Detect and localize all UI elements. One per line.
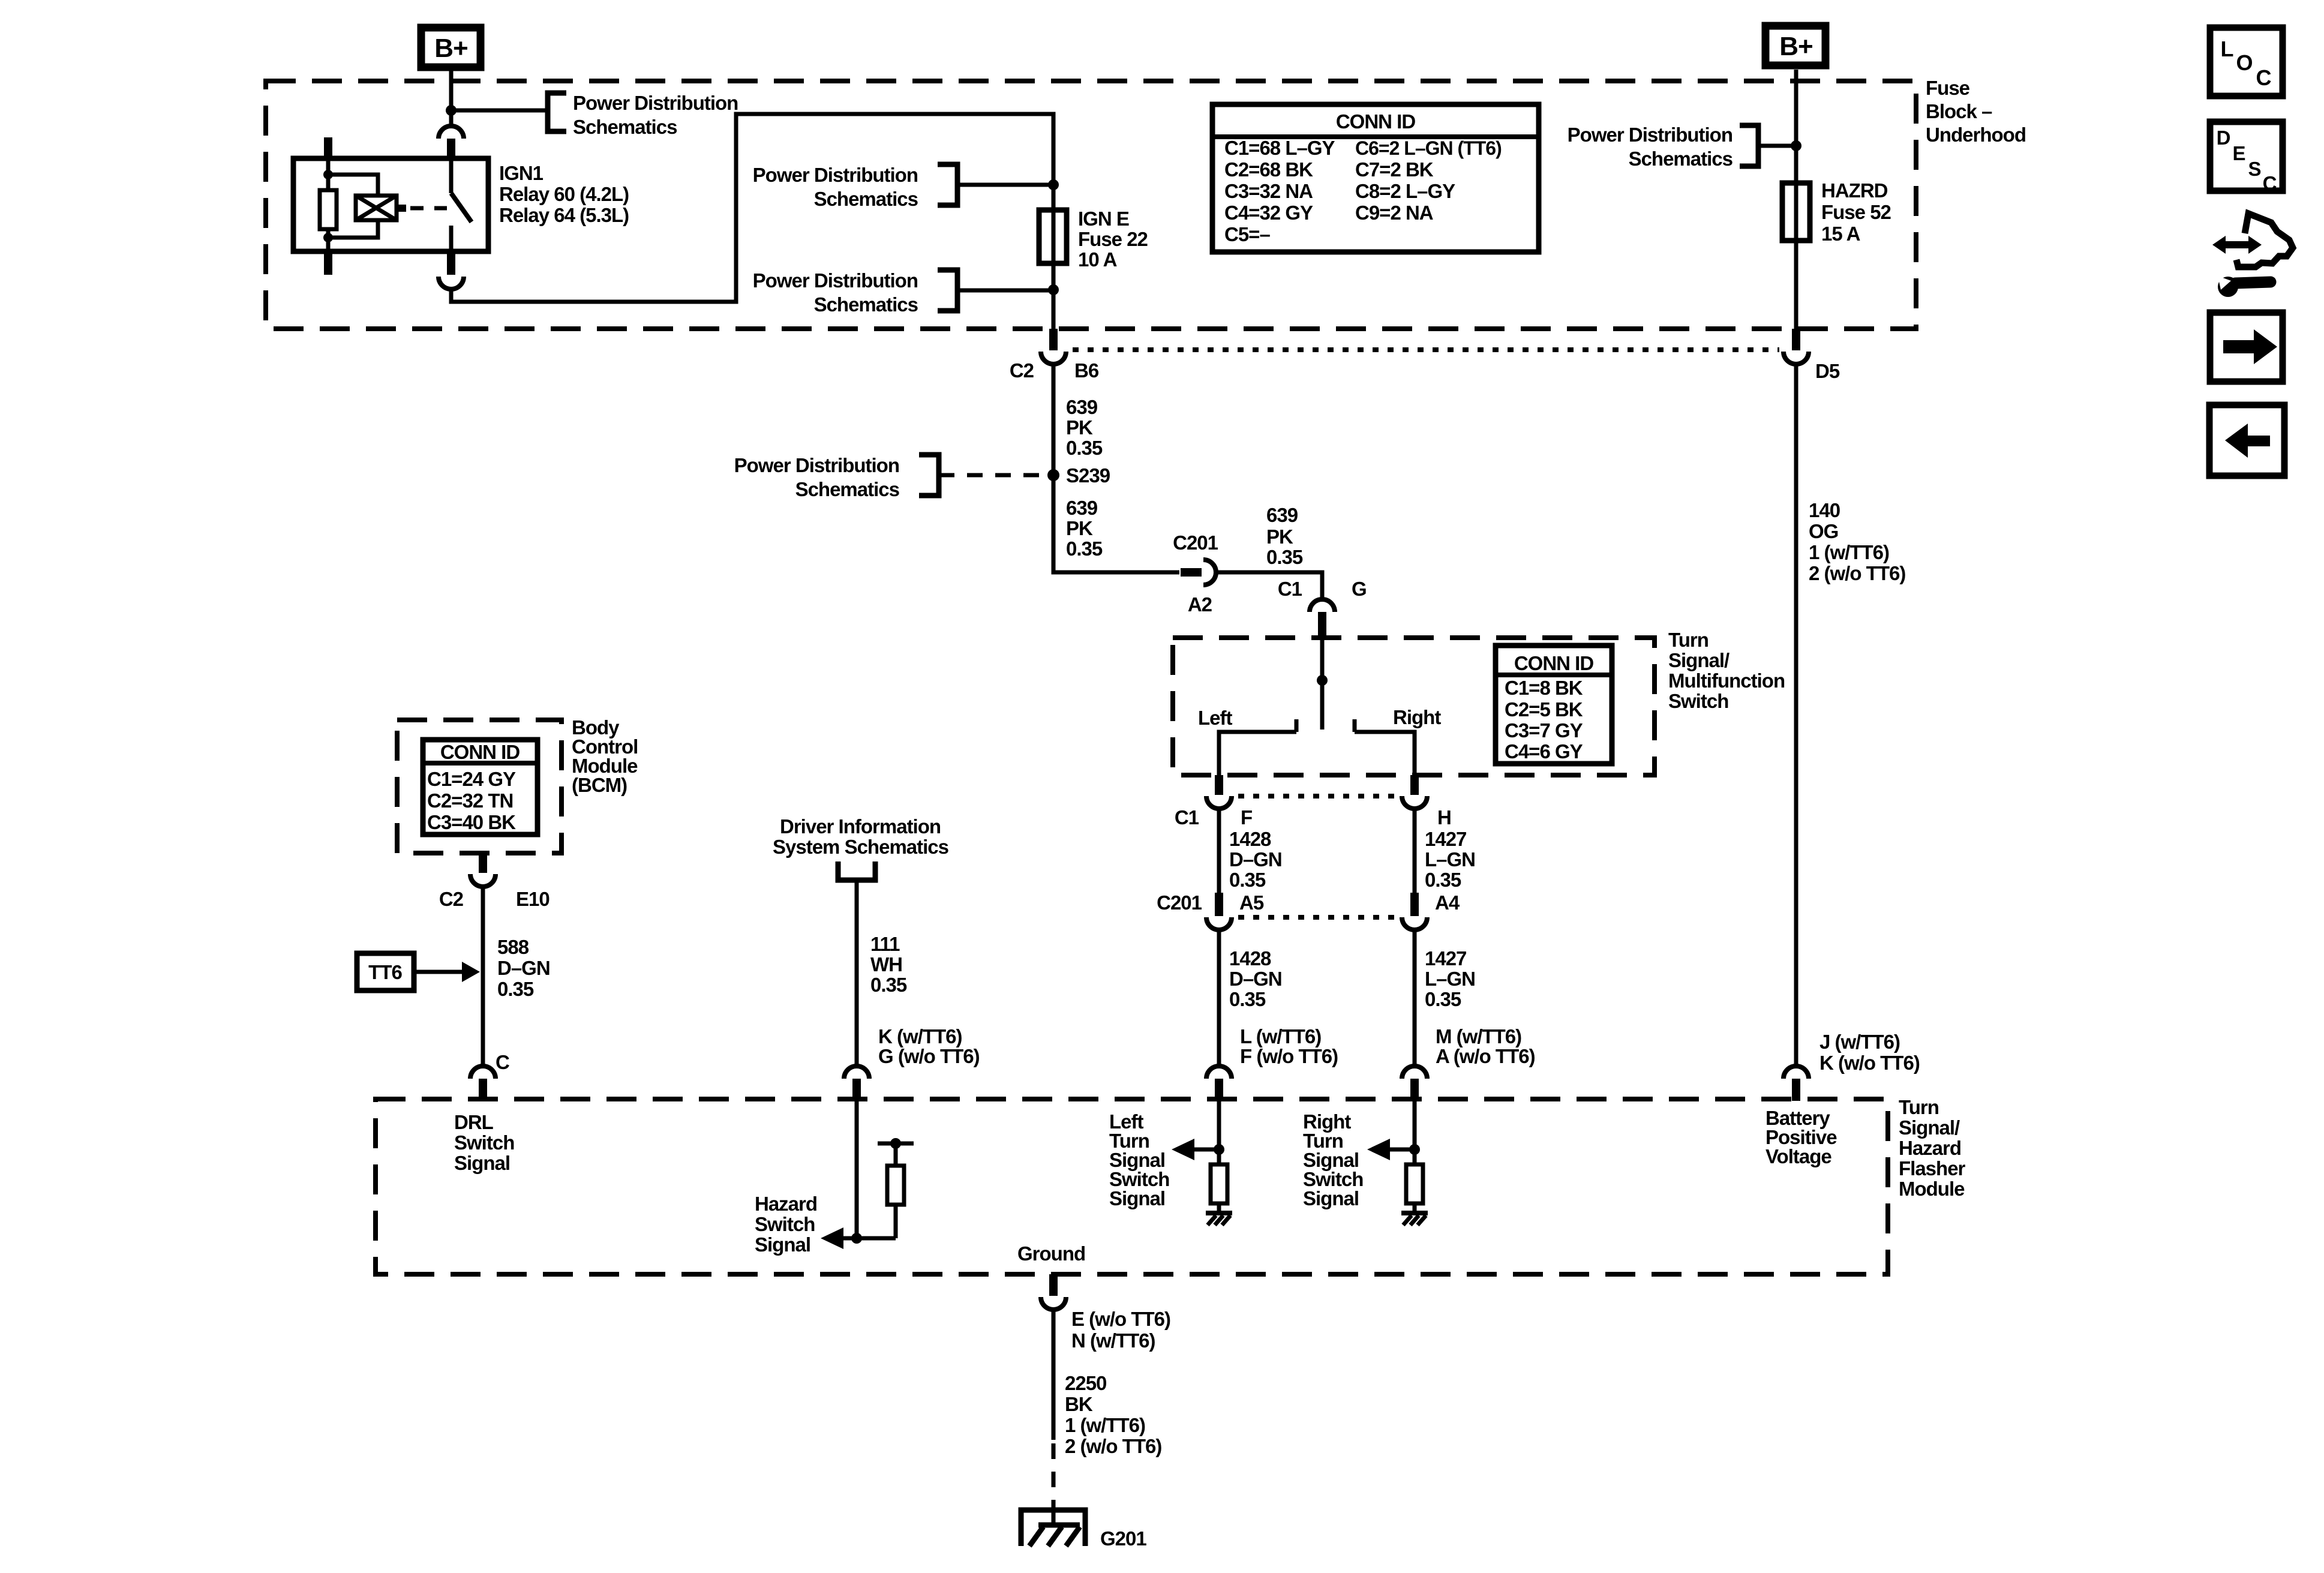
svg-text:C8=2 L–GY: C8=2 L–GY [1355, 180, 1455, 202]
conn id table (switch) [1496, 646, 1612, 764]
connector C1-F pin [1215, 775, 1223, 795]
wire bracket to junction [957, 289, 1049, 293]
connector C2-E10 pin [479, 853, 487, 873]
svg-text:Voltage: Voltage [1765, 1145, 1831, 1167]
svg-text:HAZRD: HAZRD [1821, 179, 1888, 202]
svg-text:M (w/TT6): M (w/TT6) [1436, 1025, 1521, 1047]
svg-text:C201: C201 [1173, 532, 1218, 554]
svg-text:C1=24 GY: C1=24 GY [427, 768, 516, 790]
svg-text:Signal: Signal [1303, 1187, 1359, 1209]
fuse HAZRD Fuse 52 15A [1782, 183, 1810, 241]
svg-text:C2=32 TN: C2=32 TN [427, 789, 513, 812]
switch right contact [1355, 719, 1415, 775]
connector C pin [479, 1079, 487, 1101]
connector C201 A4 pin [1410, 893, 1419, 916]
svg-text:C: C [496, 1051, 509, 1073]
wire 1427 lower [1413, 930, 1417, 1067]
svg-text:Switch: Switch [1668, 690, 1728, 712]
relay switch arm [451, 193, 472, 222]
svg-text:K (w/o TT6): K (w/o TT6) [1819, 1052, 1920, 1074]
ground (right turn) [1401, 1213, 1428, 1225]
wire bracket to fuse wire [957, 183, 1049, 187]
svg-text:0.35: 0.35 [1229, 988, 1266, 1010]
wire hazard resistor top [894, 1143, 898, 1166]
connector C1-F female [1206, 796, 1232, 809]
svg-text:C3=7 GY: C3=7 GY [1505, 719, 1583, 742]
wire 140 OG [1794, 362, 1798, 1067]
connector C female (DRL) [470, 1066, 496, 1079]
wire right turn input [1413, 1101, 1417, 1164]
body control module dashed box [397, 720, 562, 853]
svg-text:0.35: 0.35 [1425, 869, 1461, 891]
svg-text:G (w/o TT6): G (w/o TT6) [878, 1045, 980, 1067]
svg-text:1427: 1427 [1425, 828, 1466, 850]
power symbol B+ (right) [1765, 26, 1825, 65]
connector J-K pin [1792, 1079, 1800, 1101]
svg-text:CONN ID: CONN ID [1514, 652, 1594, 674]
svg-text:Left: Left [1198, 707, 1233, 729]
node coil top [323, 170, 333, 179]
wire 588 [481, 887, 485, 1067]
svg-text:C1: C1 [1278, 578, 1302, 600]
svg-text:Signal/: Signal/ [1668, 649, 1730, 671]
wire branch to reference bracket [451, 109, 548, 113]
connector C1-G female [1310, 599, 1335, 612]
relay coil (crossed box) [356, 196, 397, 220]
TT6 tag box [357, 953, 414, 990]
svg-text:System Schematics: System Schematics [773, 836, 948, 858]
svg-text:0.35: 0.35 [1066, 437, 1103, 459]
wire left turn input [1217, 1101, 1221, 1164]
connector C201 A2 pin [1181, 568, 1202, 577]
svg-text:Schematics: Schematics [814, 293, 918, 316]
turn signal hazard flasher module dashed box [376, 1099, 1888, 1274]
connector C201 A2 female [1203, 560, 1216, 585]
svg-text:N (w/TT6): N (w/TT6) [1071, 1329, 1155, 1352]
relay output pin [447, 251, 455, 275]
svg-text:B+: B+ [1779, 32, 1812, 61]
hazard internal bar [878, 1142, 914, 1146]
svg-text:0.35: 0.35 [1266, 546, 1303, 568]
wire to resistor [326, 175, 331, 190]
connector L-F female [1206, 1066, 1232, 1079]
svg-text:C201: C201 [1157, 891, 1202, 914]
svg-text:Ground: Ground [1017, 1242, 1085, 1265]
dashed wire to S239 bracket [939, 473, 1046, 478]
svg-text:A2: A2 [1188, 593, 1212, 616]
svg-text:D–GN: D–GN [1229, 848, 1282, 870]
svg-text:C2=68 BK: C2=68 BK [1224, 158, 1313, 181]
svg-text:H: H [1437, 806, 1451, 828]
connector J-K female [1783, 1066, 1809, 1079]
connector K-G female [844, 1066, 869, 1079]
resistor hazard [887, 1166, 904, 1205]
svg-text:G: G [1352, 578, 1367, 600]
svg-text:Fuse: Fuse [1926, 77, 1970, 99]
connector ground female [1041, 1297, 1066, 1310]
svg-text:C2=5 BK: C2=5 BK [1505, 698, 1583, 721]
svg-text:F: F [1241, 806, 1252, 828]
off-page bracket (lower left of fuse) [938, 270, 957, 311]
svg-text:IGN1: IGN1 [499, 162, 544, 184]
connector C2-B6 pin [1049, 329, 1058, 350]
svg-text:Right: Right [1393, 706, 1441, 728]
svg-text:C2: C2 [1010, 359, 1034, 382]
svg-text:C6=2 L–GN (TT6): C6=2 L–GN (TT6) [1355, 137, 1502, 159]
svg-text:Hazard: Hazard [755, 1193, 817, 1215]
node coil bottom [323, 233, 333, 242]
connector M-A female [1402, 1066, 1427, 1079]
off-page bracket (S239) [919, 455, 939, 496]
svg-text:C4=6 GY: C4=6 GY [1505, 740, 1583, 763]
splice S239 [1047, 469, 1059, 481]
wire right resistor to ground [1413, 1203, 1417, 1213]
fuse block underhood dashed box [266, 81, 1916, 329]
svg-text:C5=–: C5=– [1224, 223, 1270, 245]
svg-text:140: 140 [1809, 499, 1840, 521]
wire B+ right down [1794, 70, 1798, 144]
svg-text:Module: Module [1899, 1178, 1965, 1200]
svg-text:IGN E: IGN E [1078, 208, 1129, 230]
wire coil branch bottom [328, 220, 378, 238]
svg-text:Power Distribution: Power Distribution [753, 164, 918, 186]
right turn arrow [1390, 1148, 1415, 1152]
svg-text:C2: C2 [439, 888, 464, 910]
left turn arrow [1194, 1148, 1219, 1152]
connector D5 pin [1792, 329, 1800, 350]
svg-text:C9=2 NA: C9=2 NA [1355, 202, 1433, 224]
hazard arrow [842, 1236, 896, 1241]
node hazard junction [851, 1233, 862, 1244]
wire to hazard resistor [894, 1205, 898, 1238]
wire branch to bracket [1758, 144, 1796, 148]
icon arrow right [2210, 313, 2283, 382]
icon DESC [2210, 122, 2283, 194]
TT6 arrow [414, 970, 462, 974]
svg-text:J (w/TT6): J (w/TT6) [1819, 1031, 1900, 1053]
connector boundary dotted (C1 row) [1238, 794, 1397, 798]
svg-text:C1=8 BK: C1=8 BK [1505, 677, 1583, 699]
svg-text:Fuse 52: Fuse 52 [1821, 201, 1891, 223]
wire 1428 upper [1217, 809, 1221, 893]
linkage dashed [410, 206, 447, 211]
svg-text:A5: A5 [1239, 891, 1264, 914]
svg-text:CONN ID: CONN ID [440, 741, 520, 763]
svg-text:A4: A4 [1435, 891, 1460, 914]
ground G201 [1021, 1510, 1085, 1546]
relay IGN1 box [293, 158, 488, 251]
connector C2-B6 female [1041, 352, 1066, 364]
svg-text:F (w/o TT6): F (w/o TT6) [1240, 1045, 1338, 1067]
node left turn [1214, 1144, 1224, 1155]
svg-text:1427: 1427 [1425, 947, 1466, 969]
connector D5 female [1783, 352, 1809, 364]
wire 111 WH [855, 880, 859, 1067]
svg-text:2 (w/o TT6): 2 (w/o TT6) [1809, 562, 1905, 584]
connector L-F pin [1215, 1079, 1223, 1101]
svg-text:Power Distribution: Power Distribution [573, 92, 738, 114]
svg-text:588: 588 [497, 936, 529, 958]
wire relay output to fuse IGN E [451, 114, 1053, 302]
node fuse top junction [1048, 179, 1059, 190]
svg-text:1428: 1428 [1229, 828, 1271, 850]
svg-text:639: 639 [1266, 504, 1298, 526]
wire switch pole [1320, 638, 1325, 730]
wire through HAZRD fuse [1794, 146, 1798, 329]
svg-text:C1: C1 [1175, 806, 1199, 828]
svg-text:Multifunction: Multifunction [1668, 670, 1785, 692]
connector C201 A5 pin [1215, 893, 1223, 916]
wire left resistor to ground [1217, 1203, 1221, 1213]
connector K-G pin [852, 1079, 861, 1101]
svg-text:Schematics: Schematics [795, 478, 899, 500]
svg-text:D–GN: D–GN [497, 957, 550, 979]
svg-text:15 A: 15 A [1821, 223, 1860, 245]
resistor (relay internal) [320, 190, 337, 229]
node fuse bottom junction [1048, 284, 1059, 295]
svg-text:Hazard: Hazard [1899, 1137, 1961, 1159]
svg-text:E (w/o TT6): E (w/o TT6) [1071, 1308, 1170, 1330]
coil armature stub [397, 205, 406, 212]
svg-text:C7=2 BK: C7=2 BK [1355, 158, 1434, 181]
svg-text:Fuse 22: Fuse 22 [1078, 228, 1148, 250]
svg-text:Schematics: Schematics [573, 116, 677, 138]
svg-text:Power Distribution: Power Distribution [734, 454, 899, 476]
conn id table (fuse block) [1212, 104, 1539, 252]
connector boundary dotted (C201 row) [1238, 915, 1397, 920]
switch left contact [1219, 719, 1296, 775]
resistor right turn [1406, 1164, 1423, 1203]
svg-text:A (w/o TT6): A (w/o TT6) [1436, 1045, 1535, 1067]
svg-text:0.35: 0.35 [497, 978, 534, 1000]
svg-text:K (w/TT6): K (w/TT6) [878, 1025, 962, 1047]
off-page bracket (driver information) [838, 861, 875, 880]
svg-text:0.35: 0.35 [1425, 988, 1461, 1010]
svg-text:111: 111 [870, 933, 900, 955]
svg-text:D: D [2217, 127, 2230, 149]
svg-text:639: 639 [1066, 497, 1098, 519]
wire to connector C2-B6 [1052, 290, 1056, 329]
wire 2250 BK lower [1052, 1503, 1056, 1525]
wire 1427 upper [1413, 809, 1417, 893]
svg-text:Schematics: Schematics [814, 188, 918, 210]
relay switch wire bottom [449, 226, 454, 251]
svg-text:DRL: DRL [454, 1111, 494, 1133]
relay coil terminal pin (bottom) [324, 251, 332, 275]
svg-text:C4=32 GY: C4=32 GY [1224, 202, 1313, 224]
svg-text:PK: PK [1066, 517, 1093, 539]
wire 639 PK down to C201 [1053, 362, 1179, 572]
svg-text:C3=40 BK: C3=40 BK [427, 811, 516, 833]
svg-text:L–GN: L–GN [1425, 848, 1475, 870]
fuse IGN E Fuse 22 10A [1039, 210, 1067, 263]
svg-text:WH: WH [870, 953, 902, 975]
icon repair (arrow wrench) [2212, 214, 2293, 297]
svg-text:(BCM): (BCM) [572, 774, 627, 796]
svg-text:Driver Information: Driver Information [780, 815, 941, 837]
connector C2-E10 female [470, 874, 496, 887]
icon LOC [2210, 28, 2283, 96]
svg-text:S239: S239 [1066, 464, 1110, 487]
svg-text:Signal/: Signal/ [1899, 1116, 1960, 1139]
wire B+ down [449, 71, 454, 109]
wire hazard input [855, 1101, 859, 1238]
svg-text:S: S [2248, 158, 2260, 180]
svg-text:C1=68 L–GY: C1=68 L–GY [1224, 137, 1335, 159]
connector female (B+ into fuse block) [439, 126, 464, 139]
connector C1-G pin [1318, 612, 1326, 638]
svg-text:Flasher: Flasher [1899, 1157, 1966, 1179]
svg-text:Turn: Turn [1899, 1096, 1939, 1118]
conn id table (BCM) [423, 740, 538, 834]
svg-text:Signal: Signal [454, 1152, 510, 1174]
svg-text:Underhood: Underhood [1926, 124, 2026, 146]
svg-text:TT6: TT6 [368, 961, 402, 983]
svg-text:Switch: Switch [755, 1213, 815, 1235]
connector C201 A5 female [1206, 917, 1232, 930]
node under B+ right [1791, 140, 1801, 151]
svg-text:0.35: 0.35 [1229, 869, 1266, 891]
svg-text:L–GN: L–GN [1425, 968, 1475, 990]
wire resistor bottom [326, 229, 331, 251]
svg-text:639: 639 [1066, 396, 1098, 418]
svg-text:D–GN: D–GN [1229, 968, 1282, 990]
wire C201 to switch [1216, 572, 1322, 599]
svg-text:BK: BK [1065, 1393, 1093, 1415]
icon arrow left [2209, 405, 2284, 476]
node right turn [1409, 1144, 1420, 1155]
svg-text:Block –: Block – [1926, 100, 1992, 122]
relay output connector [439, 277, 464, 289]
svg-text:B+: B+ [434, 34, 467, 63]
power symbol B+ (left) [421, 28, 481, 67]
svg-text:Signal: Signal [755, 1233, 810, 1256]
svg-text:E: E [2232, 142, 2245, 164]
svg-text:1 (w/TT6): 1 (w/TT6) [1809, 541, 1889, 563]
svg-text:Switch: Switch [454, 1131, 514, 1154]
svg-text:Schematics: Schematics [1629, 148, 1733, 170]
wire 1428 lower [1217, 930, 1221, 1067]
turn signal multifunction switch dashed box [1173, 638, 1655, 775]
off-page bracket (upper left of fuse) [938, 164, 957, 205]
connector boundary dotted line [1073, 347, 1779, 352]
wire through fuse [1052, 185, 1056, 288]
resistor left turn [1211, 1164, 1227, 1203]
wire 2250 BK dashed portion [1052, 1443, 1056, 1512]
svg-text:PK: PK [1266, 526, 1293, 548]
svg-text:1 (w/TT6): 1 (w/TT6) [1065, 1414, 1145, 1436]
svg-text:B6: B6 [1074, 359, 1099, 382]
svg-text:Relay 60 (4.2L): Relay 60 (4.2L) [499, 183, 629, 205]
svg-text:G201: G201 [1100, 1527, 1146, 1550]
svg-text:O: O [2236, 50, 2252, 75]
wire coil branch top [328, 175, 378, 196]
svg-text:D5: D5 [1815, 360, 1840, 382]
svg-text:C3=32 NA: C3=32 NA [1224, 180, 1313, 202]
svg-text:0.35: 0.35 [870, 974, 907, 996]
off-page bracket (power distribution) [548, 93, 566, 131]
svg-text:OG: OG [1809, 520, 1838, 542]
connector H female [1402, 796, 1427, 809]
svg-text:2250: 2250 [1065, 1372, 1106, 1394]
wire 2250 BK [1052, 1308, 1056, 1440]
svg-text:Power Distribution: Power Distribution [1568, 124, 1733, 146]
connector C201 A4 female [1402, 917, 1427, 930]
svg-text:1428: 1428 [1229, 947, 1271, 969]
connector ground pin [1049, 1274, 1058, 1296]
off-page bracket (right) [1740, 125, 1758, 166]
node switch pole [1317, 675, 1328, 686]
svg-text:10 A: 10 A [1078, 248, 1117, 271]
connector M-A pin [1410, 1079, 1419, 1101]
svg-text:0.35: 0.35 [1066, 538, 1103, 560]
svg-text:C: C [2263, 172, 2277, 194]
connector H pin [1410, 775, 1419, 795]
svg-text:C: C [2256, 65, 2272, 90]
svg-text:Power Distribution: Power Distribution [753, 269, 918, 292]
svg-text:CONN ID: CONN ID [1336, 110, 1416, 133]
svg-text:2 (w/o TT6): 2 (w/o TT6) [1065, 1435, 1161, 1457]
node under B+ [446, 105, 457, 116]
svg-text:E10: E10 [516, 888, 550, 910]
relay switch wire top [449, 158, 454, 193]
ground (left turn) [1206, 1213, 1232, 1225]
wire to connector [449, 112, 454, 125]
svg-text:Turn: Turn [1668, 629, 1709, 651]
svg-text:PK: PK [1066, 416, 1093, 439]
svg-text:L (w/TT6): L (w/TT6) [1240, 1025, 1321, 1047]
wire coil top [326, 158, 331, 173]
svg-text:L: L [2221, 37, 2233, 61]
svg-text:Relay 64 (5.3L): Relay 64 (5.3L) [499, 204, 629, 226]
node hazard bar [890, 1138, 901, 1149]
connector pin [447, 139, 455, 158]
relay coil terminal pin (top) [324, 137, 332, 158]
svg-text:Signal: Signal [1109, 1187, 1165, 1209]
